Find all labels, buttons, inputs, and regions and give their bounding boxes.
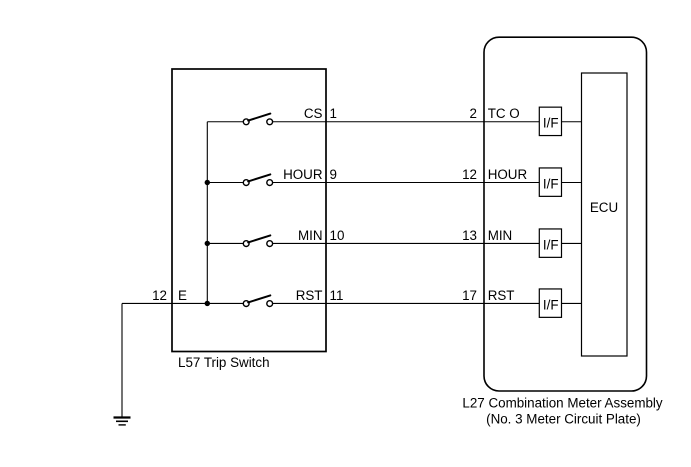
wire RST row (ground stub through box to switch SW4 left contact) [122,302,243,304]
ECU U1 (box) [582,73,628,356]
svg-text:13: 13 [462,228,477,243]
junction node MIN [205,241,210,246]
wire ground drop [121,303,123,417]
wire MIN row (bus to switch SW3 left contact) [207,242,243,244]
svg-text:MIN: MIN [298,228,323,243]
switch SW2 HOUR (contacts and blade) [243,174,272,185]
I/F box 3 [539,229,561,257]
wire vertical bus inside L57 [206,122,208,304]
svg-text:L27 Combination Meter Assembly: L27 Combination Meter Assembly [462,395,663,410]
svg-text:11: 11 [330,288,344,303]
I/F box 1 [539,107,561,135]
junction node HOUR [205,180,210,185]
svg-text:RST: RST [488,288,515,303]
svg-text:17: 17 [462,288,477,303]
wire RST row (switch SW4 right contact to ECU pin) [273,302,582,304]
wire HOUR row (switch SW2 right contact to ECU pin) [273,182,582,184]
junction node RST [205,301,210,306]
svg-text:(No. 3 Meter Circuit Plate): (No. 3 Meter Circuit Plate) [486,411,641,426]
svg-text:9: 9 [330,167,337,182]
wire MIN row (switch SW3 right contact to ECU pin) [273,242,582,244]
svg-text:I/F: I/F [543,298,559,313]
svg-text:RST: RST [296,288,323,303]
svg-text:12: 12 [152,288,167,303]
svg-text:2: 2 [470,106,477,121]
switch SW4 RST (contacts and blade) [243,295,272,306]
svg-text:10: 10 [330,228,345,243]
wire CS row (switch SW1 right contact to ECU pin) [273,121,582,123]
svg-text:I/F: I/F [543,238,559,253]
wire HOUR row (bus to switch SW2 left contact) [207,182,243,184]
svg-text:I/F: I/F [543,116,559,131]
svg-text:MIN: MIN [488,228,513,243]
svg-text:HOUR: HOUR [488,167,528,182]
svg-text:ECU: ECU [590,200,618,215]
I/F box 4 [539,289,561,317]
svg-text:TC O: TC O [488,106,520,121]
svg-text:E: E [178,288,187,303]
svg-text:L57 Trip Switch: L57 Trip Switch [178,355,270,370]
switch SW1 CS (contacts and blade) [243,114,272,125]
svg-text:HOUR: HOUR [283,167,323,182]
switch SW3 MIN (contacts and blade) [243,235,272,246]
connector block L57 Trip Switch (outline) [172,69,326,352]
svg-text:I/F: I/F [543,177,559,192]
wire CS row (bus to switch SW1 left contact) [207,121,243,123]
svg-text:12: 12 [462,167,477,182]
svg-text:1: 1 [330,106,337,121]
I/F box 2 [539,168,561,196]
connector block L27 Combination Meter Assembly (rounded outline) [484,37,647,391]
svg-text:CS: CS [304,106,323,121]
ground symbol [114,418,131,425]
